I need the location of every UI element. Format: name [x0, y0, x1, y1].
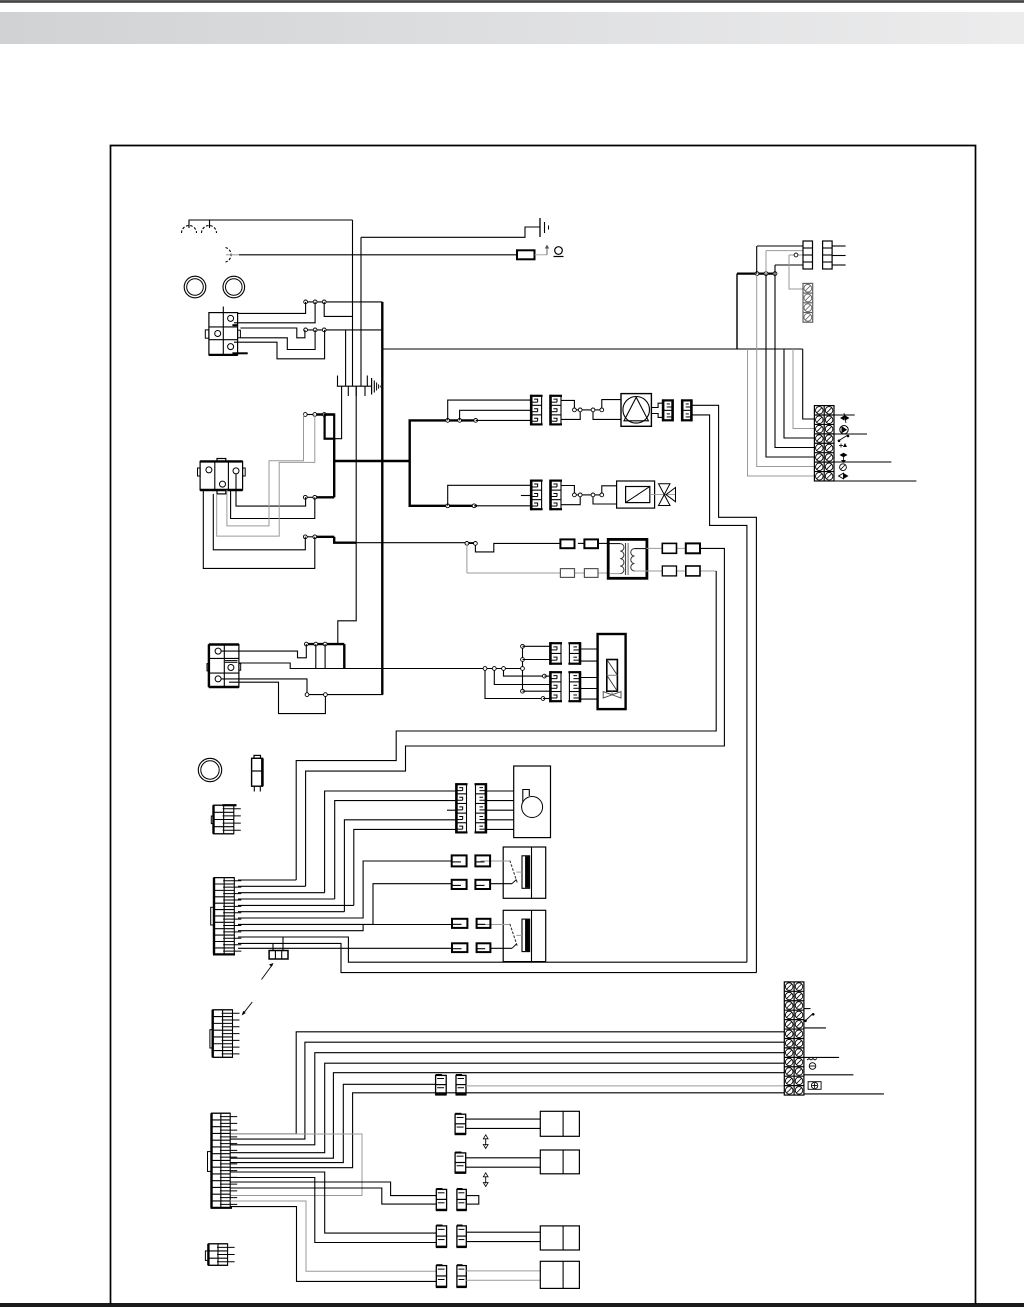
bold link box	[325, 415, 335, 439]
pump P1	[621, 394, 651, 427]
wire ground drop x345.6	[345, 330, 347, 386]
TB2 line r12	[804, 1093, 884, 1095]
icon pump	[840, 426, 848, 434]
callout arrow 2	[242, 1002, 253, 1016]
bold feed y461	[334, 460, 410, 462]
pump bracket	[652, 403, 664, 417]
wire PD right1	[691, 405, 756, 972]
icon screw	[840, 464, 847, 471]
wire PD right2	[691, 415, 747, 962]
connector TS1-a	[452, 855, 467, 866]
connector PC	[662, 399, 674, 421]
connector CN4	[205, 1244, 234, 1266]
sensor SN1 wires	[466, 1119, 541, 1128]
wire CN1-r10	[238, 937, 747, 962]
connector pair arcs P1	[182, 226, 217, 234]
wire pump2	[460, 410, 532, 420]
wire K2-4	[213, 494, 305, 550]
wire loop C	[230, 1053, 784, 1145]
connector SR	[475, 783, 487, 833]
TB1 line r2	[834, 414, 855, 416]
sensor SN2 box	[540, 1150, 579, 1174]
wire drop x766	[766, 251, 814, 457]
indicator O symbol	[554, 247, 564, 257]
wire SL-4	[344, 820, 456, 912]
wire K3-2	[239, 644, 316, 668]
wire K1-4	[240, 330, 315, 350]
bold vert x334.2	[333, 439, 335, 498]
wire top feed	[189, 220, 353, 228]
wire drop x756.7	[757, 246, 815, 467]
wire loop D	[230, 1063, 784, 1153]
wire pump link2	[591, 400, 621, 420]
chassis ground	[337, 376, 381, 415]
wire loop B	[230, 1042, 784, 1139]
wire block1-b	[766, 250, 803, 252]
connector TS2-b	[477, 919, 491, 928]
relay K2	[198, 459, 246, 494]
fuse F4	[584, 569, 598, 578]
wire vertical x361	[360, 237, 362, 386]
wire drop x784	[784, 349, 814, 438]
wire loop G	[230, 1093, 784, 1168]
TB1 line r8	[834, 480, 916, 482]
test lead arrow	[535, 245, 550, 255]
wire valve link1	[561, 486, 593, 505]
wire CN1-r1	[238, 879, 296, 881]
icon temp	[839, 443, 847, 448]
wire loop E	[230, 1073, 784, 1159]
wire pump3	[476, 419, 532, 421]
earth symbol top	[361, 218, 549, 237]
wire drop x356.2	[338, 386, 356, 644]
connector VB	[550, 480, 563, 511]
wire CN1-r12	[238, 947, 452, 949]
wire loop A	[230, 1032, 784, 1134]
wire block1-a	[757, 245, 803, 247]
sensor SN3 box	[540, 1226, 579, 1250]
wire K1-3	[240, 328, 305, 338]
pair connectors PR1	[436, 1189, 479, 1210]
bus bold x382.3	[381, 302, 383, 695]
wire node3 link	[324, 302, 352, 317]
sensor SN2 connector	[455, 1152, 467, 1173]
wire K2-gray2	[227, 415, 304, 526]
limit switch TS1	[503, 847, 546, 898]
connector CN1	[211, 878, 242, 955]
wire pump link1	[561, 400, 593, 419]
wire CN1-r8	[238, 884, 452, 925]
node row y536.8	[303, 535, 334, 539]
wire K2-3	[203, 490, 314, 568]
fuse F1	[560, 539, 574, 548]
lamp L2	[223, 276, 245, 298]
screw block X3	[803, 283, 813, 322]
gray wire pair-TB2	[466, 1085, 784, 1087]
connector S1	[549, 642, 562, 665]
wires S4-box	[580, 678, 598, 700]
TB2 icon circ-plus	[808, 1082, 821, 1090]
bold step y542.7	[334, 537, 475, 543]
junction column x522.5	[521, 644, 525, 693]
sensor SN3 connectors	[436, 1225, 467, 1247]
bold drop x344.3	[343, 644, 345, 668]
sensor SN2 wires	[466, 1158, 541, 1167]
connector TS2-d	[477, 943, 491, 952]
wire vertical x352.5	[352, 220, 354, 386]
wire CN1-r9	[238, 925, 452, 931]
small connector CN5	[211, 805, 241, 834]
node row y497.3	[303, 495, 334, 499]
wire CN3-r13	[230, 1201, 436, 1271]
icon valve1	[840, 413, 850, 423]
connector TS1-d	[475, 880, 490, 889]
relay K3	[207, 645, 241, 688]
wire CN3-r11	[230, 1182, 436, 1196]
sensor SN1 connector	[455, 1114, 467, 1135]
frame border	[111, 146, 976, 1305]
igniter drop1	[483, 667, 550, 701]
TB2 icon switch	[805, 1013, 815, 1021]
gas valve box GV	[598, 634, 626, 709]
transformer T1	[608, 539, 647, 578]
terminal K1-c	[228, 344, 234, 350]
terminal K2-c	[220, 481, 226, 487]
wire to strip S3	[523, 690, 551, 692]
wire secondary1	[306, 548, 725, 886]
wire SL-5	[354, 829, 457, 905]
terminal K2-b	[233, 468, 239, 474]
sensor SN4 box	[540, 1261, 579, 1288]
wire drop x793	[793, 349, 814, 429]
wire CN1-r4	[238, 898, 335, 900]
terminal K2-a	[206, 467, 212, 473]
icon valve2	[840, 453, 848, 463]
wire CN3-r12	[230, 1188, 436, 1204]
connector CN2	[210, 1010, 240, 1058]
sensor SN4 wires	[466, 1271, 540, 1280]
connector X2	[823, 241, 833, 269]
node row1 dots	[304, 300, 383, 304]
wire primary top	[465, 542, 609, 552]
wire K1-2	[234, 302, 315, 323]
wire K3-4	[229, 682, 325, 713]
aux pair blocks	[435, 1075, 466, 1095]
terminal K3-c	[215, 676, 221, 682]
connector SL	[455, 783, 467, 833]
wire SL-3 stub	[447, 809, 456, 811]
wire K3-1	[222, 644, 307, 658]
connector PD	[681, 399, 692, 421]
wire aux block drop1	[282, 937, 284, 951]
wire drop x775	[775, 265, 814, 448]
icon switch	[838, 435, 849, 442]
sensor SN3 wires	[466, 1232, 540, 1241]
updown arrow 2	[483, 1173, 488, 1187]
wire secondary2	[296, 571, 716, 880]
valve symbol	[650, 484, 676, 506]
TS2 gray link	[481, 925, 517, 949]
wire SL-2	[335, 801, 457, 899]
wire K1-5	[234, 330, 325, 359]
capacitor C1	[252, 755, 263, 791]
wire to strip S1	[523, 646, 551, 659]
box R1	[662, 543, 676, 553]
wire aux block drop2	[272, 943, 274, 950]
wire sensor lead	[226, 254, 517, 256]
terminal K3-a	[215, 648, 221, 654]
wire igniter feed	[290, 644, 522, 668]
TB2 line r5	[804, 1027, 826, 1029]
callout arrow 1	[262, 963, 274, 980]
wire K3-3	[222, 679, 308, 695]
node row y694.3	[305, 693, 383, 697]
node row y414.5	[303, 413, 334, 417]
connector VA	[530, 480, 542, 511]
connector X1	[803, 241, 813, 269]
connector CN3	[208, 1113, 238, 1208]
fuse F0	[517, 250, 535, 259]
wire block1-c	[789, 253, 803, 257]
wires S2-box	[580, 649, 598, 661]
wire to screw block	[789, 255, 803, 289]
wires X2 right	[832, 246, 846, 265]
wire CN3-r10	[230, 1178, 436, 1243]
TB2 line r8	[804, 1056, 839, 1058]
node row y644.1	[304, 642, 344, 646]
terminal K1-b	[215, 331, 221, 337]
TB2 icon earth	[807, 1059, 817, 1070]
wire CN1-r5	[238, 904, 354, 906]
node dots y273.6	[755, 272, 777, 276]
valve box V1	[617, 481, 655, 508]
sensor SN1 box	[540, 1111, 579, 1136]
connector PB	[550, 395, 563, 426]
wire CN1-r2	[238, 885, 306, 887]
wire CN1-r7	[238, 861, 452, 918]
limit switch TS2	[503, 910, 546, 961]
wire CN1-r11	[238, 943, 756, 972]
wire SL-1	[325, 791, 457, 893]
TB1 line r7	[834, 461, 891, 463]
connector TS1-b	[475, 855, 490, 866]
wire block1-d	[775, 264, 803, 266]
relay K1 top tick	[222, 307, 224, 313]
fuse F3	[560, 569, 574, 578]
connector S2	[568, 642, 581, 665]
wire K1-1	[238, 302, 306, 314]
bracket dots bottom	[446, 504, 476, 508]
bracket dots top	[446, 419, 478, 423]
box R2	[686, 543, 700, 553]
terminal K1-a	[228, 315, 234, 321]
node row2 dots	[304, 328, 383, 332]
wire x341.6 link	[334, 415, 341, 439]
box R3	[662, 566, 676, 576]
wire K2-gray1	[217, 415, 315, 537]
updown arrow 1	[483, 1135, 488, 1149]
lamp L3	[198, 758, 221, 781]
bold bracket	[410, 420, 477, 505]
terminal strip TB2	[784, 982, 804, 1095]
wire pump1	[448, 400, 532, 420]
TB2 stub r3	[804, 1008, 811, 1010]
igniter drop2	[492, 667, 550, 685]
wire loop F	[230, 1084, 435, 1162]
wire valve1	[448, 485, 532, 506]
TB1 line r4	[834, 433, 867, 435]
wire primary bottom	[467, 543, 609, 573]
terminal K3-b	[228, 665, 234, 671]
wire drop x747.5	[748, 349, 815, 476]
wire valve2	[474, 496, 531, 506]
fuse F2	[584, 539, 598, 548]
igniter drop3	[502, 667, 551, 678]
bold bus y273.6	[737, 274, 775, 349]
connector TS1-c	[452, 880, 467, 889]
box R4	[686, 566, 700, 576]
wire valve link2	[591, 486, 617, 504]
relay K1	[205, 313, 247, 355]
terminal strip TB1	[814, 406, 834, 481]
lamp L1	[184, 276, 206, 298]
connector S4	[568, 671, 581, 702]
wire drop x802.7	[803, 349, 815, 419]
wire CN3-r14	[230, 1207, 436, 1282]
wires SR-instrument	[486, 791, 514, 829]
icon valve3	[839, 473, 849, 479]
wire CN1-r3	[238, 892, 325, 894]
wire K2-1	[236, 474, 306, 506]
aux connector CN1b	[269, 951, 288, 960]
TB2 line r10	[804, 1074, 854, 1076]
wire feed y347.5	[382, 348, 802, 350]
connector PA	[530, 395, 542, 426]
wire CN1-r6	[238, 911, 344, 913]
wire K2-2	[231, 490, 315, 519]
instrument box (pressure sensor)	[514, 766, 551, 838]
connector TS2-c	[452, 943, 467, 952]
wire CN3-r9	[230, 1172, 436, 1233]
TS1 gray link	[481, 861, 517, 884]
sensor SN4 connectors	[436, 1265, 467, 1287]
connector TS2-a	[452, 919, 467, 928]
connector S3	[549, 671, 562, 702]
gray jumper loop	[230, 1134, 362, 1196]
connector arc P2	[226, 248, 232, 263]
